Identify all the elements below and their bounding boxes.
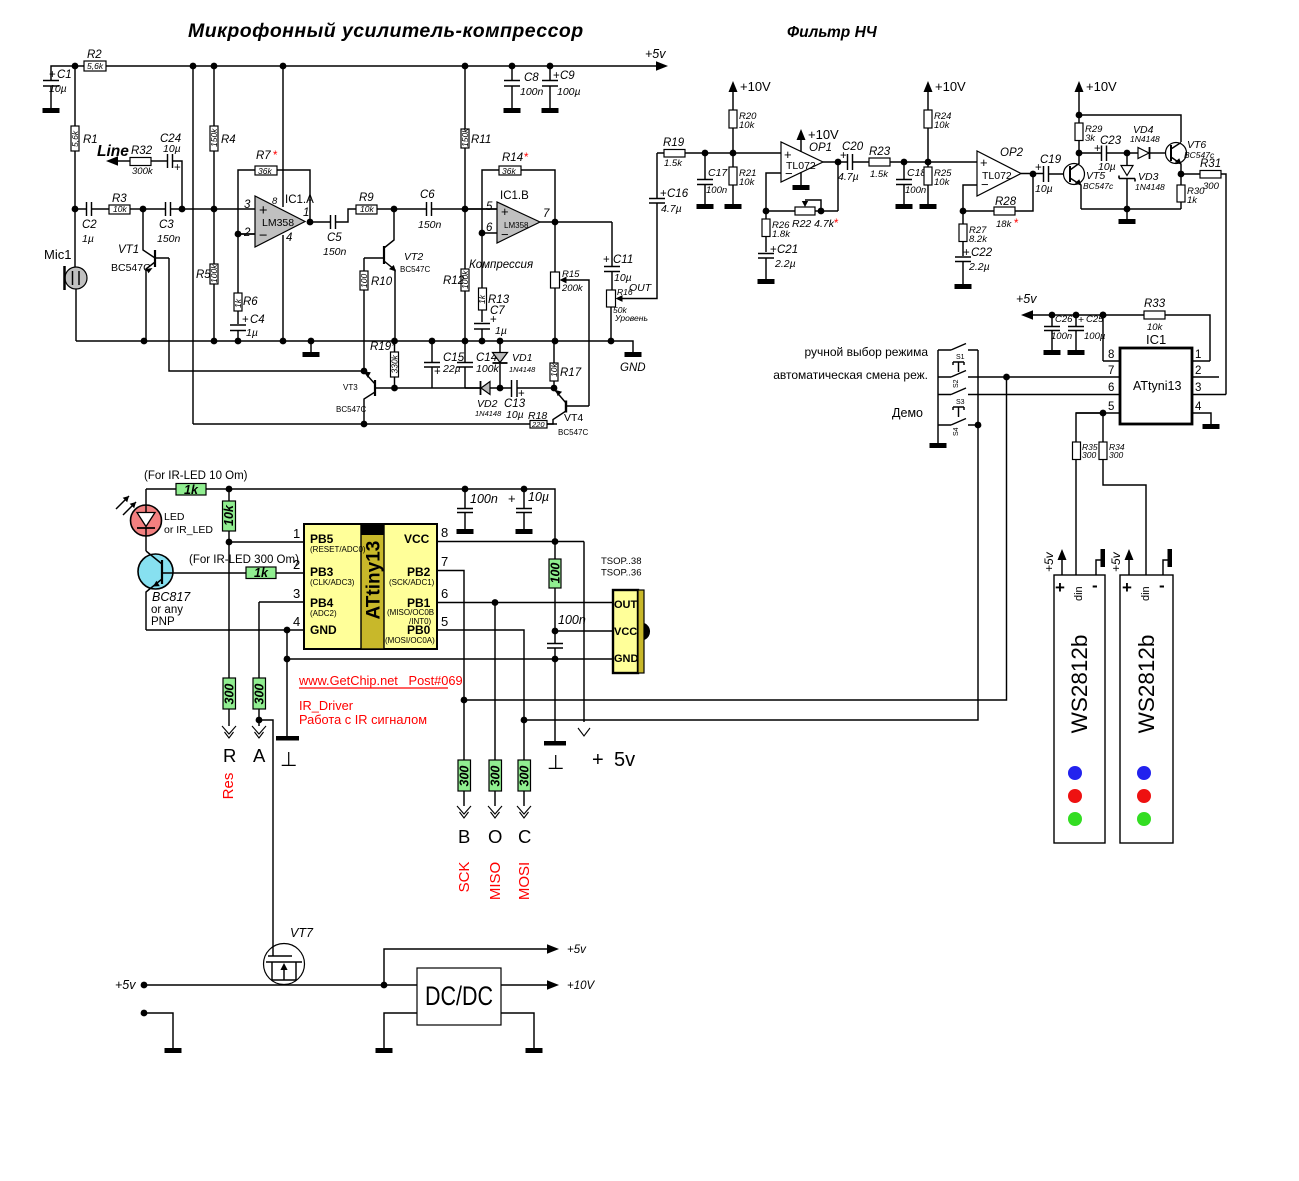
svg-text:*: * xyxy=(834,218,839,230)
svg-text:DC/DC: DC/DC xyxy=(425,981,493,1011)
svg-text:-: - xyxy=(1092,576,1098,595)
svg-text:100: 100 xyxy=(359,274,369,288)
transistor VT3 xyxy=(336,372,394,425)
svg-text:300k: 300k xyxy=(132,166,154,177)
pin 2 IC1 stub xyxy=(1192,365,1219,377)
pin 7 IC1 xyxy=(1007,365,1121,377)
node C23/VD3 junction xyxy=(1124,150,1131,157)
svg-text:1k: 1k xyxy=(477,294,487,304)
svg-text:1µ: 1µ xyxy=(495,325,507,337)
node R29 top rail xyxy=(1076,112,1181,142)
svg-text:300: 300 xyxy=(253,684,267,705)
node C6 right / R11 R12 column xyxy=(462,206,469,213)
svg-text:VCC: VCC xyxy=(614,626,637,638)
node OP2 output xyxy=(1021,171,1044,178)
wire top +5v rail IR xyxy=(146,489,555,542)
svg-text:22µ: 22µ xyxy=(442,363,461,375)
svg-text:R5: R5 xyxy=(196,269,211,281)
svg-text:A: A xyxy=(253,745,266,766)
svg-text:R10: R10 xyxy=(371,276,393,288)
+5v rail to IC1 xyxy=(1016,292,1210,361)
capacitor C26 xyxy=(1044,314,1074,355)
svg-text:R12: R12 xyxy=(443,275,465,287)
svg-text:TL072: TL072 xyxy=(786,160,816,172)
svg-text:R17: R17 xyxy=(560,367,582,379)
transistor BC817 xyxy=(138,551,246,630)
svg-text:or any: or any xyxy=(151,604,183,616)
svg-text:C21: C21 xyxy=(777,244,798,256)
pin labels left PB5 xyxy=(310,532,366,554)
node S2 junction xyxy=(1003,374,1010,381)
svg-text:6: 6 xyxy=(441,586,448,601)
svg-text:BC547C: BC547C xyxy=(558,428,588,437)
power +10V arrow OP1 xyxy=(797,127,840,152)
pin 3 PB4 wire xyxy=(259,586,304,678)
ground GND symbol right xyxy=(620,352,646,374)
svg-text:(ADC2): (ADC2) xyxy=(310,609,337,618)
svg-text:C6: C6 xyxy=(420,189,435,201)
pin 6 IC1 xyxy=(968,382,1120,395)
svg-text:1N4148: 1N4148 xyxy=(475,409,502,418)
svg-text:VT7: VT7 xyxy=(290,926,314,940)
pushbutton actuator S2 xyxy=(953,362,964,372)
svg-text:300: 300 xyxy=(489,766,503,787)
resistor 10k pullup xyxy=(222,489,236,542)
svg-text:10k: 10k xyxy=(739,120,756,131)
ground OP1 xyxy=(793,172,810,190)
node +5v input xyxy=(141,982,148,989)
node VT3 emitter / R10 bottom xyxy=(361,368,368,375)
svg-text:5: 5 xyxy=(486,201,493,213)
switch S3 xyxy=(938,388,966,406)
svg-text:O: O xyxy=(488,826,502,847)
svg-text:10k: 10k xyxy=(360,204,374,214)
svg-text:R19*: R19* xyxy=(370,341,396,353)
arrow B SCK xyxy=(456,806,473,892)
pin labels right PB2 xyxy=(389,565,435,587)
svg-text:10k: 10k xyxy=(934,120,951,131)
capacitor C14 xyxy=(457,341,500,388)
resistor R26 xyxy=(762,211,791,252)
svg-text:Mic1: Mic1 xyxy=(44,247,71,262)
label OUT xyxy=(629,282,653,294)
LED emission arrows xyxy=(116,496,136,515)
node C13 right / R17 xyxy=(551,385,558,392)
capacitor C6 xyxy=(418,189,497,231)
LED strip 1 green dot xyxy=(1068,812,1082,826)
svg-text:5,6k: 5,6k xyxy=(70,130,80,147)
node TSOP cap gnd rail xyxy=(552,656,559,663)
ground bar + symbol below cap xyxy=(544,741,566,774)
label (For IR-LED 10 Om) xyxy=(144,470,248,482)
svg-text:150k: 150k xyxy=(209,128,219,147)
svg-text:автоматическая смена реж.: автоматическая смена реж. xyxy=(773,368,928,382)
capacitor C24 xyxy=(160,133,182,209)
label ручной выбор режима xyxy=(804,345,928,359)
svg-text:S2: S2 xyxy=(953,379,960,388)
wire +5v top rail xyxy=(75,65,656,67)
resistor 100 green xyxy=(549,542,563,632)
svg-text:BC547C: BC547C xyxy=(336,405,366,414)
svg-text:300: 300 xyxy=(1082,450,1096,460)
resistor R28 xyxy=(963,174,1033,230)
svg-text:2: 2 xyxy=(293,557,300,572)
svg-text:R31: R31 xyxy=(1200,158,1221,170)
svg-text:+10V: +10V xyxy=(808,127,839,142)
node R29 bottom xyxy=(1076,150,1101,157)
LED strip 2 WS2812b xyxy=(1120,575,1173,843)
svg-text:C11: C11 xyxy=(613,254,633,266)
svg-text:MOSI: MOSI xyxy=(516,862,533,900)
svg-text:1k: 1k xyxy=(184,483,199,497)
svg-text:150n: 150n xyxy=(323,246,347,258)
svg-text:R23: R23 xyxy=(869,146,891,158)
label автоматическая смена реж. xyxy=(773,368,928,382)
svg-text:1.5k: 1.5k xyxy=(870,169,889,180)
svg-text:R2: R2 xyxy=(87,49,102,61)
resistor R20 xyxy=(729,92,757,153)
svg-text:VT4: VT4 xyxy=(564,412,583,424)
svg-text:Работа с IR сигналом: Работа с IR сигналом xyxy=(299,712,427,727)
svg-text:+5v: +5v xyxy=(115,978,136,992)
svg-text:150n: 150n xyxy=(157,233,181,245)
red text GetChip xyxy=(298,673,463,688)
resistor 1k (IR-LED 10 Om) xyxy=(176,483,206,497)
svg-text:+: + xyxy=(434,366,441,378)
svg-text:Line: Line xyxy=(97,143,129,160)
node R19 output junctions xyxy=(702,150,737,157)
node C3/C24 junction xyxy=(179,206,255,213)
svg-text:S1: S1 xyxy=(956,354,965,361)
node TSOP vcc junction xyxy=(552,628,613,635)
svg-text:+: + xyxy=(770,244,777,256)
svg-text:10k: 10k xyxy=(549,363,559,377)
pin labels left GND xyxy=(310,623,337,637)
svg-text:OUT: OUT xyxy=(629,282,653,294)
svg-text:+5v: +5v xyxy=(645,47,666,61)
svg-text:1.5k: 1.5k xyxy=(664,158,683,169)
transistor VT4 xyxy=(547,389,589,437)
node IC1.B output xyxy=(540,219,612,226)
node 10k bottom pin1 xyxy=(226,539,233,546)
wire switch common left xyxy=(930,350,947,448)
svg-text:100n: 100n xyxy=(1051,331,1072,342)
capacitor 10µ vcc xyxy=(508,489,549,534)
wire OP2 minus xyxy=(960,185,977,214)
pin 5 PB0 wire xyxy=(437,614,524,720)
svg-text:C7: C7 xyxy=(490,305,505,317)
svg-text:R7: R7 xyxy=(256,150,271,162)
wire VT5 emitter ground row xyxy=(1081,206,1181,224)
node A junction xyxy=(256,717,273,944)
svg-text:5v: 5v xyxy=(614,749,635,771)
resistor R13 xyxy=(477,233,510,322)
switch S4 xyxy=(938,419,978,437)
svg-text:(MOSI/OC0A): (MOSI/OC0A) xyxy=(385,636,435,645)
svg-text:6: 6 xyxy=(1108,382,1114,394)
svg-text:BC547C: BC547C xyxy=(111,262,151,274)
svg-text:+10V: +10V xyxy=(567,980,596,992)
svg-text:8: 8 xyxy=(272,196,278,207)
svg-text:ATtyni13: ATtyni13 xyxy=(1133,379,1181,393)
resistor R9 xyxy=(356,192,426,214)
svg-text:C5: C5 xyxy=(327,232,342,244)
resistor R17 xyxy=(549,341,582,388)
svg-text:C2: C2 xyxy=(82,219,97,231)
svg-text:(SCK/ADC1): (SCK/ADC1) xyxy=(389,578,435,587)
svg-text:7: 7 xyxy=(1108,365,1114,377)
svg-text:+: + xyxy=(1055,578,1065,597)
node OP1 fb left xyxy=(763,208,770,215)
capacitor C13 xyxy=(500,380,554,421)
svg-text:OUT: OUT xyxy=(614,599,638,611)
svg-text:R6: R6 xyxy=(243,296,258,308)
arrow O MISO xyxy=(487,806,504,900)
svg-text:Res: Res xyxy=(220,773,237,800)
svg-text:OP1: OP1 xyxy=(809,142,832,154)
IC ATtiny13 DIP box xyxy=(304,524,437,649)
LED strip 1 blue dot xyxy=(1068,766,1082,780)
node pin8 +5v xyxy=(1100,312,1107,361)
svg-text:+: + xyxy=(1078,314,1084,326)
transistor VT6 xyxy=(1166,139,1215,174)
resistor R12 xyxy=(443,209,470,341)
IC U IC1 ATtiny13 xyxy=(1120,332,1192,424)
ground DC/DC right xyxy=(501,1013,543,1053)
svg-text:1: 1 xyxy=(1195,349,1201,361)
capacitor C4 xyxy=(230,314,265,341)
node top rail junctions xyxy=(72,63,554,70)
LED strip 1 red dot xyxy=(1068,789,1082,803)
svg-text:din: din xyxy=(1140,586,1152,601)
resistor R29 xyxy=(1075,115,1103,153)
svg-text:GND: GND xyxy=(310,623,337,637)
svg-text:R: R xyxy=(223,745,236,766)
svg-text:+: + xyxy=(660,188,667,200)
svg-text:C4: C4 xyxy=(250,314,265,326)
resistor R32 xyxy=(130,145,167,177)
svg-text:3: 3 xyxy=(293,586,300,601)
capacitor C7 xyxy=(474,305,507,341)
svg-text:+: + xyxy=(553,70,560,82)
arrow R reset xyxy=(220,726,237,799)
ground DC/DC left xyxy=(376,1013,418,1053)
svg-text:C3: C3 xyxy=(159,219,174,231)
DC/DC converter box xyxy=(417,968,501,1025)
svg-text:(MISO/OC0B: (MISO/OC0B xyxy=(387,608,434,617)
ground tap mid rail xyxy=(303,341,320,357)
svg-text:150k: 150k xyxy=(460,128,470,147)
capacitor C21 xyxy=(758,244,799,284)
svg-text:1k: 1k xyxy=(233,298,243,308)
svg-text:VT1: VT1 xyxy=(118,244,139,256)
svg-text:10µ: 10µ xyxy=(528,490,549,504)
svg-text:330k: 330k xyxy=(390,354,400,373)
svg-text:C26: C26 xyxy=(1055,314,1073,325)
svg-text:4: 4 xyxy=(293,614,300,629)
svg-text:C20: C20 xyxy=(842,141,864,153)
wire IC1.A V+ pin xyxy=(282,66,284,207)
pin 7 PB2 wire xyxy=(437,554,464,700)
node after R9 xyxy=(391,206,398,213)
wire +5v line to DC/DC xyxy=(144,984,417,986)
svg-text:IC1: IC1 xyxy=(1146,332,1166,347)
svg-text:C9: C9 xyxy=(560,70,575,82)
switch S2 xyxy=(938,371,1007,389)
svg-text:300: 300 xyxy=(1109,450,1123,460)
svg-text:GND: GND xyxy=(614,653,639,665)
resistor R35 xyxy=(1073,442,1098,575)
node IC1.A output xyxy=(307,219,314,226)
svg-text:WS2812b: WS2812b xyxy=(1134,635,1159,734)
resistor R30 xyxy=(1177,174,1205,209)
resistor 300 C column xyxy=(518,720,532,806)
svg-text:6: 6 xyxy=(486,222,493,234)
svg-text:C: C xyxy=(518,826,531,847)
power +5v arrow strip 2 xyxy=(1109,549,1134,575)
node IC1.B minus xyxy=(479,230,486,237)
resistor R7 feedback xyxy=(238,150,310,234)
svg-text:WS2812b: WS2812b xyxy=(1067,635,1092,734)
svg-text:100n: 100n xyxy=(520,86,544,98)
pin 1 PB5 wire xyxy=(229,526,304,542)
node pin5 junction xyxy=(1076,410,1106,442)
svg-text:BC547c: BC547c xyxy=(1083,181,1114,191)
svg-text:R22 4.7k: R22 4.7k xyxy=(792,218,835,230)
svg-text:R9: R9 xyxy=(359,192,374,204)
svg-text:⊥: ⊥ xyxy=(280,749,297,771)
resistor R31 xyxy=(1181,158,1226,395)
resistor R1 xyxy=(70,66,98,209)
resistor R4 xyxy=(209,66,236,209)
capacitor C9 xyxy=(542,66,581,113)
svg-text:300: 300 xyxy=(223,684,237,705)
svg-text:C19: C19 xyxy=(1040,154,1062,166)
svg-text:4.7µ: 4.7µ xyxy=(838,171,859,183)
svg-text:100µ: 100µ xyxy=(557,86,581,98)
svg-text:2.2µ: 2.2µ xyxy=(774,258,796,270)
TSOP receiver body xyxy=(613,590,650,673)
wire +5v branch up xyxy=(384,944,587,985)
power +10V arrow R29 xyxy=(1075,79,1118,115)
svg-text:*: * xyxy=(1014,218,1019,230)
wire R16 wiper to C16 xyxy=(623,203,658,299)
potentiometer R16 volume xyxy=(607,287,648,341)
svg-text:MISO: MISO xyxy=(487,862,504,900)
+5v arrow right xyxy=(645,47,668,71)
pin 1 IC1 xyxy=(1192,349,1210,361)
node SCK line junction xyxy=(461,697,468,704)
svg-text:100k: 100k xyxy=(476,363,500,375)
wire VT1 collector to y371 line xyxy=(169,258,364,371)
svg-text:10µ: 10µ xyxy=(506,409,524,421)
svg-text:PB4: PB4 xyxy=(310,596,334,610)
capacitor C20 xyxy=(838,141,869,183)
resistor R18 xyxy=(528,410,547,429)
svg-text:300: 300 xyxy=(1203,181,1220,192)
node gnd rail left xyxy=(284,627,291,736)
ground under C1 xyxy=(43,108,60,113)
potentiometer R15 xyxy=(551,222,590,406)
resistor 300 B column xyxy=(458,700,472,806)
svg-text:Уровень: Уровень xyxy=(614,313,648,323)
svg-text:10µ: 10µ xyxy=(49,83,67,95)
diode VD2 xyxy=(465,381,502,418)
svg-text:10k: 10k xyxy=(934,177,951,188)
pin 2 PB3 wire xyxy=(293,557,300,572)
svg-text:(For IR-LED 10 Om): (For IR-LED 10 Om) xyxy=(144,470,248,482)
svg-text:PB3: PB3 xyxy=(310,565,334,579)
svg-text:1.8k: 1.8k xyxy=(772,229,791,240)
wire OP1 minus input xyxy=(766,173,781,211)
node OP1 output xyxy=(823,159,848,166)
svg-text:GND: GND xyxy=(620,362,646,374)
svg-text:1k: 1k xyxy=(1187,195,1198,206)
ground rail bottom mic amp xyxy=(76,341,633,352)
resistor 300 O column xyxy=(489,603,503,807)
arrow C MOSI xyxy=(516,806,533,900)
svg-text:Компрессия: Компрессия xyxy=(469,259,533,271)
svg-text:www.GetChip.net Post#069: www.GetChip.net Post#069 xyxy=(298,673,463,688)
svg-text:1N4148: 1N4148 xyxy=(1130,134,1160,144)
svg-text:5,6k: 5,6k xyxy=(87,61,104,71)
TSOP receiver labels xyxy=(601,556,642,579)
wire S2 line down-left to PB2 xyxy=(464,377,1007,700)
svg-text:18k: 18k xyxy=(996,219,1013,230)
svg-text:din: din xyxy=(1073,586,1085,601)
svg-text:B: B xyxy=(458,826,470,847)
svg-text:C16: C16 xyxy=(667,188,689,200)
LED strip 2 red dot xyxy=(1137,789,1151,803)
wire y424 line from x193 xyxy=(193,423,557,425)
svg-text:R19: R19 xyxy=(663,137,685,149)
LED strip 2 blue dot xyxy=(1137,766,1151,780)
svg-text:R11: R11 xyxy=(471,134,491,146)
pin 5 IC1 xyxy=(1076,401,1120,413)
op-amp OP1 xyxy=(781,142,832,182)
ground bar + symbol left xyxy=(276,736,299,771)
svg-text:+: + xyxy=(1122,578,1132,597)
pin 8 VCC wire xyxy=(437,525,584,545)
wire S4 line down-left to PB0 xyxy=(524,425,978,720)
resistor R6 xyxy=(233,234,258,324)
svg-text:LM358: LM358 xyxy=(262,217,294,229)
svg-text:+10V: +10V xyxy=(740,79,771,94)
svg-text:+: + xyxy=(49,69,56,81)
LED strip 1 WS2812b xyxy=(1054,575,1105,843)
transistor VT7 mosfet xyxy=(264,926,314,985)
arrow A xyxy=(252,726,266,766)
transistor VT2 xyxy=(364,209,430,341)
svg-text:1N4148: 1N4148 xyxy=(509,365,536,374)
svg-text:BC817: BC817 xyxy=(152,590,191,604)
svg-text:36k: 36k xyxy=(258,166,272,176)
svg-text:36k: 36k xyxy=(502,166,516,176)
svg-text:PNP: PNP xyxy=(151,616,175,628)
svg-text:⊥: ⊥ xyxy=(547,752,564,774)
pin labels right PB1 xyxy=(387,596,434,626)
svg-text:10k: 10k xyxy=(739,177,756,188)
svg-text:+5v: +5v xyxy=(567,944,587,956)
diode VD3 zener xyxy=(1119,153,1165,209)
pushbutton actuator S4 xyxy=(953,407,964,417)
label Компрессия xyxy=(469,259,533,271)
svg-text:1N4148: 1N4148 xyxy=(1135,182,1165,192)
svg-text:Демо: Демо xyxy=(892,406,923,420)
svg-text:5: 5 xyxy=(1108,401,1114,413)
svg-text:7: 7 xyxy=(441,554,448,569)
svg-text:3: 3 xyxy=(244,199,251,211)
